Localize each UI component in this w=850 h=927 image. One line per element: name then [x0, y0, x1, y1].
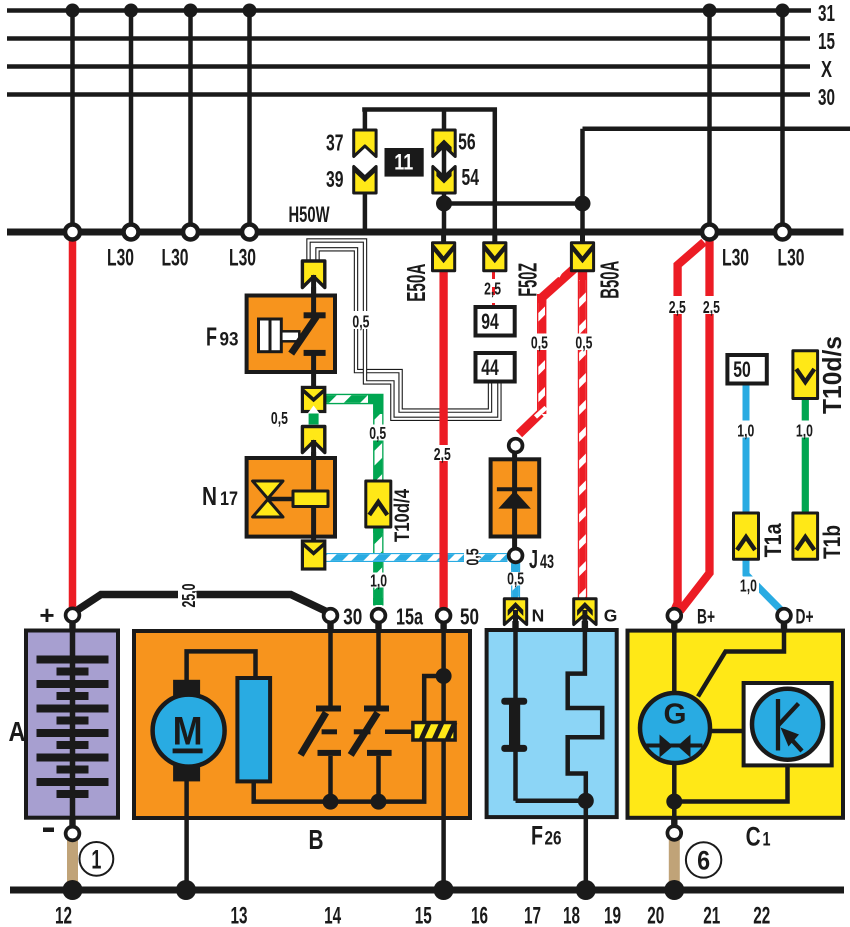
svg-text:31: 31: [818, 0, 835, 26]
H50W bus: [7, 229, 844, 236]
junction dot on bus 31 at x=190.5: [184, 4, 198, 18]
svg-text:D+: D+: [796, 606, 814, 629]
node L30 terminal circle at x=190.5: [183, 225, 198, 240]
wire to connector 37: [363, 108, 368, 132]
wire red 2,5 left to B+: [675, 242, 704, 609]
alternator C1: [628, 623, 844, 833]
wire red dashed thin to box 94: [492, 271, 495, 307]
wire drop from 31 to L30 terminal 2: [129, 11, 134, 224]
node terminal 15a of B: [372, 609, 386, 623]
svg-text:15: 15: [415, 903, 432, 927]
connector F50Z: [484, 232, 506, 271]
svg-text:J: J: [529, 544, 538, 574]
connector 54: [433, 167, 455, 194]
label C1: [746, 822, 771, 852]
wire blue 0,5 from N17 to J43: [325, 553, 508, 562]
svg-text:43: 43: [540, 552, 554, 573]
wire from 30-feed down to connector B50A: [580, 129, 585, 248]
svg-text:54: 54: [461, 164, 479, 190]
svg-text:B+: B+: [697, 606, 715, 629]
wire drop from 31 to L30 terminal 6: [780, 11, 785, 224]
connector T1a: [734, 513, 759, 559]
wire drop from 31 to L30 terminal 1: [70, 11, 75, 224]
svg-text:50: 50: [460, 604, 479, 630]
connector 56: [433, 130, 455, 182]
wire stub at terminal D+: [781, 621, 787, 633]
svg-text:B50A: B50A: [594, 261, 624, 299]
wire blue 0,5 from J43 to terminal N: [511, 563, 520, 600]
bus line 30: [7, 92, 810, 97]
svg-text:T1b: T1b: [819, 525, 846, 559]
wire blue 1,0 from box 50 to T1a: [743, 384, 750, 515]
svg-text:T10d/4: T10d/4: [391, 489, 414, 542]
wire tan alternator ground: [669, 840, 680, 887]
svg-text:M: M: [173, 710, 203, 754]
ground junction dot F26: [576, 880, 596, 900]
wire fuse feed top: [362, 107, 497, 112]
svg-text:17: 17: [220, 489, 238, 510]
svg-text:50: 50: [733, 357, 751, 382]
node J43 upper terminal: [509, 439, 523, 453]
svg-text:1,0: 1,0: [740, 576, 757, 596]
svg-text:21: 21: [703, 903, 720, 927]
svg-text:25,0: 25,0: [178, 584, 199, 608]
wire green 1,0 from T10d/4 to terminal 15a: [373, 527, 383, 606]
svg-text:2,5: 2,5: [703, 297, 720, 317]
node alternator ground terminal: [667, 826, 681, 840]
generator G symbol: [640, 693, 710, 763]
node B junction dot: [575, 196, 591, 212]
svg-text:2,5: 2,5: [484, 279, 501, 299]
svg-text:1: 1: [91, 845, 101, 875]
svg-text:2,5: 2,5: [669, 297, 686, 317]
sender F26: [487, 624, 617, 887]
connector at F93 top: [302, 261, 324, 297]
label 1,0 blue bend: [738, 576, 760, 596]
svg-text:L30: L30: [162, 245, 189, 272]
wire green 0,5 from F93 connector to T10d/4: [324, 399, 378, 481]
wire green link F93 to N17: [309, 414, 319, 425]
label 1,0 blue wire: [736, 421, 757, 441]
svg-text:1,0: 1,0: [737, 421, 754, 441]
svg-text:X: X: [821, 56, 832, 82]
wire stub at terminal N: [512, 621, 518, 632]
ground junction dot 50-line: [434, 880, 454, 900]
svg-text:G: G: [664, 699, 687, 731]
wire stub to connector 56: [442, 108, 447, 133]
wire red 2,5 E50A to terminal 50: [439, 270, 447, 609]
connector 37: [354, 130, 376, 157]
wire stub at terminal 30: [327, 621, 333, 633]
wire green 1,0 from T10d/s to T1b: [802, 397, 809, 514]
svg-text:T1a: T1a: [760, 523, 787, 558]
svg-text:0,5: 0,5: [352, 312, 369, 332]
ground junction dot C1: [664, 880, 684, 900]
svg-text:E50A: E50A: [401, 264, 431, 302]
label battery minus: [43, 828, 54, 833]
bus line 15: [7, 36, 810, 41]
label 0,5 thin wires: [350, 311, 371, 332]
svg-text:0,5: 0,5: [369, 423, 386, 443]
svg-text:30: 30: [343, 604, 362, 630]
svg-text:C: C: [746, 822, 761, 852]
junction dot on bus 31 at x=249.5: [243, 4, 257, 18]
wire node link y=203.5: [444, 201, 583, 206]
wire from fuse feed down across H50W bus to connector F50Z: [493, 108, 498, 249]
wire stub at alternator ground terminal: [671, 816, 677, 827]
solenoid winding: [237, 678, 270, 781]
connector B50A: [571, 232, 593, 271]
battery A: [26, 623, 118, 826]
regulator: [744, 683, 832, 765]
svg-text:0,5: 0,5: [271, 408, 288, 428]
wire blue 1,0 from T1a to D+: [746, 558, 782, 611]
connector T10d/s: [793, 351, 818, 399]
junction dot on bus 31 at x=782.5: [776, 4, 790, 18]
connector at N17 top: [302, 427, 324, 459]
wire stub at terminal G: [582, 621, 588, 632]
svg-text:N: N: [532, 606, 545, 626]
svg-text:0,5: 0,5: [531, 333, 548, 353]
relay N17: [247, 452, 335, 543]
wire stub at terminal B+: [671, 621, 677, 633]
svg-text:H50W: H50W: [289, 202, 330, 227]
node L30 terminal circle at x=782.5: [775, 225, 790, 240]
motor M: [173, 680, 200, 697]
node J43 lower terminal: [509, 549, 523, 563]
svg-text:17: 17: [524, 903, 541, 927]
wire stub at terminal 50: [440, 621, 446, 633]
svg-text:N: N: [202, 481, 217, 511]
connector at F93 bottom: [302, 387, 324, 413]
label 0,5 B50A wire: [573, 333, 595, 353]
node terminal 50 of B: [437, 609, 451, 623]
svg-text:37: 37: [326, 130, 344, 156]
label F93: [206, 322, 239, 352]
svg-text:F50Z: F50Z: [513, 263, 543, 297]
svg-text:G: G: [604, 606, 618, 626]
svg-text:1,0: 1,0: [796, 421, 813, 441]
node terminal D+: [777, 609, 791, 623]
wire red-white B50A from connector to terminal G: [578, 271, 587, 600]
label 0,5 green wire: [367, 423, 389, 443]
label 1,0 green right wire: [794, 421, 815, 441]
svg-text:56: 56: [458, 129, 476, 155]
starter B: [134, 623, 470, 887]
label F26: [531, 821, 562, 851]
box 50: [727, 355, 766, 384]
svg-text:11: 11: [394, 150, 413, 175]
wire red-white F50Z from connector B50A to J43: [519, 265, 578, 434]
bus line X: [7, 64, 810, 69]
connector T10d/4: [366, 481, 391, 527]
svg-text:26: 26: [545, 828, 562, 850]
wire thin 0,5 from F93 connector to connector 44 (outer): [309, 241, 500, 419]
svg-text:L30: L30: [107, 245, 134, 272]
wire from connector 54 through node to H50W bus: [442, 191, 447, 232]
svg-text:93: 93: [220, 330, 239, 351]
fuse 11: [385, 148, 424, 177]
svg-text:94: 94: [481, 309, 499, 334]
svg-text:14: 14: [324, 903, 341, 927]
ignition switch contact 15a: [364, 706, 389, 712]
node terminal B+: [667, 609, 681, 623]
ground junction dot motor M: [176, 880, 196, 900]
label J43: [529, 544, 554, 574]
svg-text:2,5: 2,5: [434, 444, 451, 464]
label 0,5 blue vertical: [505, 569, 527, 589]
svg-text:44: 44: [481, 355, 499, 380]
svg-text:18: 18: [563, 903, 580, 927]
svg-text:F: F: [206, 322, 217, 352]
box 94: [476, 307, 515, 336]
wire drop from 31 to L30 terminal 5: [707, 11, 712, 224]
label N17: [202, 481, 238, 511]
node L30 terminal circle at x=709.5: [702, 225, 717, 240]
connector N at F26: [504, 599, 526, 628]
wire from connector 39 to H50W bus: [363, 191, 368, 232]
svg-text:0,5: 0,5: [575, 333, 592, 353]
svg-text:F: F: [531, 821, 543, 851]
connector G at F26: [574, 599, 596, 628]
node L30 terminal circle at x=249.5: [242, 225, 257, 240]
svg-text:22: 22: [753, 903, 770, 927]
wire drop from 31 to L30 terminal 3: [188, 11, 193, 224]
wire tan battery ground: [67, 840, 78, 887]
svg-text:0,5: 0,5: [507, 569, 524, 589]
junction dot on bus 31 at x=72.5: [66, 4, 80, 18]
svg-text:A: A: [9, 716, 26, 747]
ground symbol 1: [80, 842, 114, 876]
wire stub at battery plus terminal: [69, 621, 75, 632]
svg-text:15a: 15a: [396, 604, 424, 630]
connector T1b: [793, 513, 818, 559]
battery positive cable 25,0: [76, 595, 328, 613]
node battery plus terminal: [66, 608, 80, 622]
wire drop from 31 to L30 terminal 4: [247, 11, 252, 224]
ground bus: [10, 887, 844, 894]
svg-text:13: 13: [231, 903, 248, 927]
node battery minus terminal: [66, 827, 80, 841]
connector 39: [354, 165, 376, 193]
svg-text:0,5: 0,5: [462, 548, 482, 565]
label 0,5 F50Z wire: [529, 333, 551, 353]
glow element: [413, 723, 455, 741]
wire stub at battery minus terminal: [69, 816, 75, 828]
node terminal 30 of B: [324, 609, 338, 623]
label 25,0 cable rotated: [178, 583, 199, 608]
wire 30-feed right: [583, 127, 850, 132]
ignition switch contact 30: [316, 706, 341, 712]
svg-text:30: 30: [818, 84, 835, 110]
diode J43: [491, 452, 540, 548]
svg-text:+: +: [39, 600, 54, 630]
node L30 terminal circle at x=131: [124, 225, 139, 240]
label 2,5 E50A wire: [432, 444, 453, 464]
wire thin 0,5 from F93 connector to connector 44 (inner): [318, 249, 491, 410]
svg-text:1: 1: [763, 830, 771, 851]
label 0,5 blue wire rotated: [462, 547, 482, 568]
node A junction dot: [436, 196, 452, 212]
svg-text:16: 16: [471, 903, 488, 927]
wire stub at terminal 15a: [375, 621, 381, 633]
bus line 31: [7, 8, 811, 13]
junction dot on bus 31 at x=131: [124, 4, 138, 18]
label 2,5 red right: [702, 296, 722, 317]
svg-text:20: 20: [647, 903, 664, 927]
relay F93: [247, 287, 335, 390]
wire red battery positive from L30: [69, 238, 77, 608]
ground symbol 6: [686, 842, 721, 877]
label 2,5 red left: [668, 296, 688, 317]
connector E50A: [433, 232, 455, 271]
wire red 2,5 right to B+: [680, 240, 710, 612]
svg-text:L30: L30: [229, 245, 256, 272]
connector at N17 bottom: [302, 541, 324, 569]
junction dot on bus 31 at x=709.5: [703, 4, 717, 18]
svg-text:L30: L30: [722, 245, 749, 272]
node L30 terminal circle at x=72.5: [65, 225, 80, 240]
svg-text:L30: L30: [778, 245, 805, 272]
svg-text:15: 15: [818, 28, 835, 54]
svg-text:6: 6: [697, 846, 710, 876]
svg-text:T10d/s: T10d/s: [817, 336, 847, 414]
svg-text:B: B: [309, 824, 324, 855]
svg-text:12: 12: [55, 903, 72, 927]
box 44: [476, 353, 515, 382]
svg-text:39: 39: [326, 166, 344, 192]
svg-text:19: 19: [604, 903, 621, 927]
ground junction dot 12: [63, 880, 83, 900]
label 1,0 green lower: [369, 571, 389, 591]
svg-text:1,0: 1,0: [370, 571, 387, 591]
